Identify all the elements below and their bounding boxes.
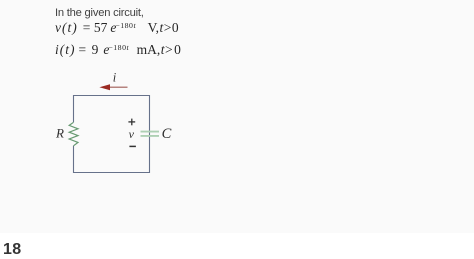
svg-text:v: v [129, 127, 135, 141]
equation i(t) [55, 42, 181, 58]
label + [128, 121, 135, 123]
label minus [129, 145, 136, 147]
page number 18 (cut off) [3, 241, 22, 259]
equation v(t) [55, 20, 179, 36]
circuit schematic [40, 60, 190, 185]
text: In the given circuit, [55, 7, 144, 19]
resistor R [69, 122, 78, 146]
svg-text:C: C [162, 126, 172, 142]
capacitor C plates [141, 131, 160, 133]
wire: loop outline (left edge broken for resistor) [74, 96, 150, 173]
svg-text:R: R [55, 126, 64, 141]
svg-text:i: i [113, 71, 117, 85]
current arrow [109, 86, 128, 88]
